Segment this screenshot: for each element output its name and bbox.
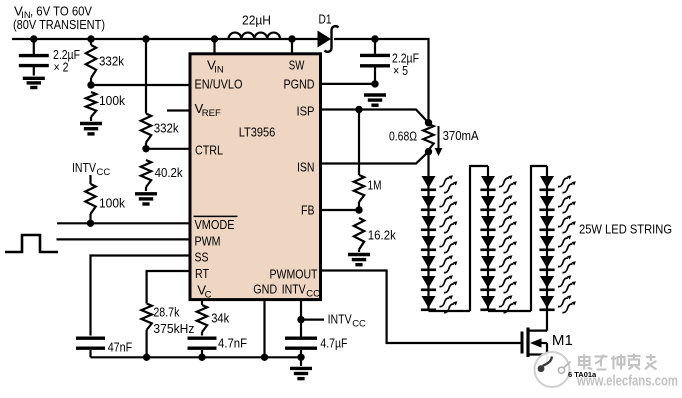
wire string1-to-string2 riser [470, 166, 488, 311]
ground below C5 [364, 95, 386, 105]
svg-text:ISP: ISP [297, 104, 315, 119]
svg-text:100k: 100k [99, 196, 125, 211]
node ISP-1M junction [355, 106, 362, 113]
wire GND pin [261, 301, 268, 361]
resistor R2 100k [86, 92, 126, 121]
svg-text:EN/UVLO: EN/UVLO [195, 77, 243, 92]
svg-text:LT3956: LT3956 [239, 125, 276, 140]
resistor R6 28.7k [141, 304, 194, 361]
wire SS [91, 256, 190, 336]
resistor R1 332k [86, 35, 125, 85]
svg-text:22µH: 22µH [242, 13, 271, 28]
watermark chinese text [579, 354, 657, 370]
resistor R7 34k [197, 305, 230, 336]
svg-text:40.2k: 40.2k [155, 165, 183, 180]
svg-text:REF: REF [202, 108, 221, 119]
svg-text:D1: D1 [319, 12, 332, 27]
svg-text:PWMOUT: PWMOUT [270, 267, 318, 282]
wire ISP [320, 110, 429, 123]
wire VREF stub [167, 109, 189, 111]
watermark logo circle [535, 352, 571, 387]
inductor L1 22uH [229, 13, 281, 40]
svg-text:4.7nF: 4.7nF [218, 336, 247, 351]
pwm pulse waveform [5, 235, 58, 252]
resistor R9 1M [354, 110, 382, 211]
resistor R3 332k [141, 114, 179, 149]
svg-text:GND: GND [253, 282, 277, 297]
svg-text:www.elecfans.com: www.elecfans.com [576, 374, 678, 390]
wire rail diode-to-sense corner [334, 39, 429, 123]
svg-text:FB: FB [301, 203, 315, 218]
svg-text:PWM: PWM [195, 234, 221, 249]
note figure label TA01a [568, 370, 597, 379]
capacitor C5 2.2uF x5 [360, 35, 419, 84]
svg-text:4.7µF: 4.7µF [320, 336, 347, 351]
svg-text:16.2k: 16.2k [368, 228, 396, 243]
wire VC [201, 301, 203, 305]
capacitor C3 4.7nF [188, 336, 248, 361]
wire string2-bottom [488, 310, 531, 312]
svg-text:375kHz: 375kHz [153, 321, 194, 336]
svg-text:RT: RT [195, 266, 209, 281]
ground below C1 [23, 78, 45, 87]
wire PWM [57, 238, 190, 240]
ground below R2 [80, 124, 102, 134]
svg-text:25W LED STRING: 25W LED STRING [579, 222, 672, 237]
node VIN input label [13, 4, 105, 33]
svg-text:34k: 34k [211, 311, 229, 326]
resistor R10 16.2k [354, 218, 396, 252]
ground below R10 [348, 255, 370, 265]
wire SW pin [288, 35, 295, 53]
svg-text:INTV: INTV [328, 312, 352, 327]
transistor M1 NMOS [522, 311, 573, 364]
resistor R4 40.2k [141, 160, 183, 191]
svg-text:47nF: 47nF [108, 340, 133, 355]
led string 1 [421, 152, 458, 313]
svg-text:0.68Ω: 0.68Ω [389, 129, 417, 144]
svg-text:332k: 332k [154, 121, 179, 136]
svg-text:370mA: 370mA [443, 128, 479, 143]
wire PWMOUT-to-gate [320, 271, 521, 344]
svg-text:C: C [205, 290, 212, 301]
wire INTVCC pin [297, 301, 304, 361]
svg-text:VMODE: VMODE [195, 217, 235, 232]
svg-text:CTRL: CTRL [195, 143, 223, 158]
current arrow 370mA [435, 126, 479, 156]
resistor R8 0.68 ohm [389, 119, 434, 155]
wire string2-to-string3 riser [531, 166, 547, 311]
wire FB [320, 206, 363, 213]
diode D1 [318, 12, 339, 52]
svg-text:28.7k: 28.7k [153, 305, 179, 320]
svg-text:SW: SW [289, 58, 305, 73]
node INTVCC label left [72, 160, 110, 178]
wire rail inductor-to-diode [280, 38, 318, 40]
op-amp U1 LT3956 body [190, 54, 321, 300]
svg-text:M1: M1 [552, 333, 573, 349]
wire CTRL [146, 148, 189, 150]
watermark url text [576, 374, 678, 390]
svg-text:× 5: × 5 [393, 63, 408, 78]
svg-text:IN: IN [214, 65, 224, 76]
svg-text:100k: 100k [99, 93, 125, 108]
led string 2 [480, 166, 517, 313]
wire bottom ground rail [91, 356, 302, 358]
wire string1-bottom [429, 310, 471, 312]
svg-text:CC: CC [352, 319, 366, 330]
op-amp U1 pin labels [194, 58, 321, 301]
capacitor C4 4.7uF [285, 336, 347, 358]
svg-text:SS: SS [195, 250, 209, 265]
svg-text:ISN: ISN [297, 160, 315, 175]
svg-text:INTV: INTV [282, 282, 306, 297]
node VMODE junction [87, 220, 94, 227]
svg-text:1M: 1M [368, 178, 382, 193]
svg-text:INTV: INTV [72, 160, 96, 175]
wire VIN-to-CTRL-divider [142, 35, 149, 113]
wire VMODE [57, 222, 189, 224]
node EN junction [87, 81, 94, 88]
svg-text:× 2: × 2 [54, 60, 69, 75]
capacitor C1 2.2uF x2 [19, 35, 80, 75]
svg-text:PGND: PGND [284, 77, 315, 92]
wire EN/UVLO [91, 84, 189, 86]
wire PGND [320, 80, 379, 87]
capacitor C2 47nF [76, 338, 132, 357]
wire RT [147, 271, 189, 304]
wire VIN pin [211, 35, 218, 53]
node INTVCC stub [297, 312, 366, 330]
svg-text:(80V TRANSIENT): (80V TRANSIENT) [13, 17, 105, 32]
wire top VIN rail [12, 38, 229, 40]
svg-text:CC: CC [97, 167, 111, 178]
resistor R5 100k [85, 175, 125, 223]
node LED string label [579, 222, 672, 237]
node CTRL junction [142, 145, 149, 152]
wire ISN [320, 152, 429, 164]
ground below R4 [135, 194, 157, 204]
svg-text:CC: CC [306, 289, 320, 300]
ground below C4 [290, 357, 312, 378]
led string 3 [539, 166, 576, 313]
svg-text:332k: 332k [99, 54, 124, 69]
